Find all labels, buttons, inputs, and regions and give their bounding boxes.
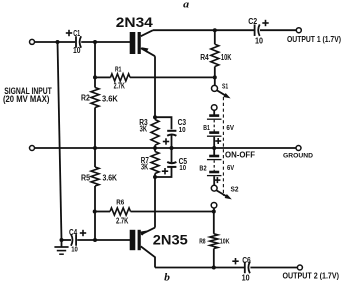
wire: input line to C1: [35, 41, 76, 43]
wire: C3 bottom to rail: [171, 135, 173, 148]
svg-text:S1: S1: [222, 83, 228, 90]
capacitor C5: [171, 148, 173, 162]
capacitor C2: [254, 24, 256, 36]
svg-text:B2: B2: [199, 164, 206, 173]
svg-text:10: 10: [242, 274, 251, 281]
wire: Q1 emitter vertical: [154, 56, 156, 119]
svg-text:10K: 10K: [221, 52, 232, 62]
switch S1: [214, 77, 216, 85]
node: R4 top: [213, 28, 217, 32]
wire: R2 to ground rail: [94, 108, 96, 149]
svg-text:2.7K: 2.7K: [116, 216, 129, 225]
svg-text:R4: R4: [200, 52, 209, 62]
svg-text:R6: R6: [116, 198, 124, 207]
resistor R4: [214, 30, 216, 44]
wire: bottom rail to C6: [155, 267, 244, 269]
svg-text:C4: C4: [69, 228, 78, 237]
svg-text:C6: C6: [242, 256, 251, 265]
Q2 emitter lead: [141, 228, 155, 235]
Q1 emitter arrow (PNP): [142, 47, 149, 52]
node: S2/R6/R8: [212, 210, 216, 214]
svg-text:10: 10: [255, 36, 264, 45]
transistor Q1 2N34 body: [130, 32, 136, 54]
node: 2N34 base branch: [93, 40, 97, 44]
wire: C1 to 2N34 base: [81, 41, 130, 43]
resistor R7: [154, 148, 156, 152]
wire: base node vertical to R2: [94, 42, 96, 88]
svg-text:2N34: 2N34: [116, 15, 154, 30]
svg-text:B1: B1: [203, 123, 210, 132]
svg-text:10: 10: [71, 246, 78, 253]
ground rail: [35, 147, 296, 149]
wire: R1 right segment to supply node: [130, 76, 215, 78]
svg-text:3K: 3K: [141, 162, 148, 171]
ground terminal right: [296, 146, 301, 151]
ground symbol: [61, 240, 63, 247]
svg-text:GROUND: GROUND: [283, 152, 313, 159]
gang dashed link S1-S2: [222, 97, 224, 196]
wire: C6 to output 2 terminal: [250, 267, 297, 269]
svg-text:10: 10: [179, 125, 186, 134]
switch S2: [213, 176, 215, 185]
wire: C5 bottom branch: [155, 167, 172, 177]
node: R6 branch: [93, 210, 97, 214]
svg-text:10: 10: [73, 46, 81, 55]
node: R3/C3 top: [153, 115, 157, 119]
svg-text:R8: R8: [199, 236, 205, 245]
wire: input line bottom to C4: [62, 239, 72, 241]
Q1 emitter lead: [141, 48, 155, 56]
svg-text:R2: R2: [81, 93, 90, 103]
node: rail R3/R7: [153, 146, 157, 150]
svg-text:R1: R1: [115, 65, 121, 74]
Q2 collector lead: [141, 246, 155, 267]
svg-text:R5: R5: [81, 173, 90, 183]
wire: input vertical down left side: [58, 42, 62, 240]
node: rail C3/C5: [170, 146, 174, 150]
capacitor C6: [244, 262, 246, 274]
Q2 emitter arrow (NPN): [140, 231, 147, 236]
svg-text:C1: C1: [73, 29, 80, 38]
node: C4 left / ground stub: [60, 238, 64, 242]
wire: top rail collector to C2: [153, 29, 254, 31]
battery B2: [213, 148, 215, 156]
Q1 collector lead: [141, 30, 153, 36]
wire: C2 to output 1 terminal: [260, 29, 296, 31]
svg-text:6V: 6V: [227, 163, 234, 172]
output 1 terminal: [296, 28, 301, 33]
output 2 terminal: [297, 265, 302, 270]
svg-text:(20 MV MAX): (20 MV MAX): [3, 94, 49, 104]
node: R8 bottom: [212, 266, 216, 270]
node: 2N35 base branch: [93, 238, 97, 242]
svg-text:3K: 3K: [140, 124, 148, 133]
svg-text:3.6K: 3.6K: [102, 93, 118, 103]
resistor R2: [91, 88, 99, 108]
node: rail R2/R5: [93, 146, 97, 150]
capacitor C1: [75, 36, 77, 48]
transistor Q2 2N35 body: [130, 230, 136, 250]
svg-text:2N35: 2N35: [153, 233, 189, 248]
resistor R1: [111, 74, 131, 81]
svg-text:b: b: [164, 272, 170, 281]
svg-text:a: a: [183, 0, 189, 10]
capacitor C3: [167, 130, 176, 132]
resistor R5: [94, 148, 96, 167]
svg-text:OUTPUT 1 (1.7V): OUTPUT 1 (1.7V): [287, 35, 341, 44]
node: R4 bottom / R1 / S1: [213, 75, 217, 79]
wire: R6 left segment: [95, 211, 110, 213]
wire: R6 right segment to S2/R8 node: [131, 211, 214, 213]
node: rail battery tap: [212, 146, 216, 150]
svg-text:3.6K: 3.6K: [103, 173, 118, 183]
node: input junction: [56, 40, 60, 44]
capacitor C4: [75, 234, 77, 246]
input terminal: [30, 39, 35, 44]
node: R1 branch: [93, 75, 97, 79]
node: R7/C5 bottom: [153, 175, 157, 179]
svg-text:10K: 10K: [220, 236, 230, 245]
wire: emitter vertical to Q2: [154, 177, 156, 228]
svg-text:2.7K: 2.7K: [114, 81, 126, 91]
svg-text:OUTPUT 2 (1.7V): OUTPUT 2 (1.7V): [283, 272, 340, 281]
svg-text:6V: 6V: [226, 123, 234, 132]
svg-text:ON-OFF: ON-OFF: [225, 151, 255, 160]
svg-text:10: 10: [179, 163, 186, 172]
resistor R3: [151, 120, 159, 146]
wire: R1 left segment: [95, 76, 111, 78]
battery B1: [213, 110, 215, 115]
resistor R8: [213, 212, 215, 234]
ground terminal left: [30, 146, 35, 151]
wire: C4 to 2N35 base: [77, 239, 130, 241]
wire: C3 top branch: [155, 117, 172, 129]
svg-text:C2: C2: [248, 17, 258, 26]
svg-text:S2: S2: [231, 184, 239, 193]
resistor R6: [110, 208, 131, 215]
